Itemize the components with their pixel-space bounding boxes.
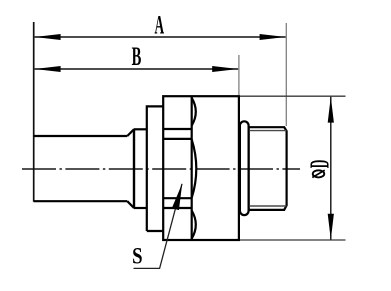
flange (washer) xyxy=(147,106,163,231)
collar bottom edge xyxy=(134,207,147,209)
flare cone bottom xyxy=(127,201,134,208)
tube top edge xyxy=(34,135,128,137)
dimension line A xyxy=(35,36,286,38)
svg-text:B: B xyxy=(132,41,142,71)
hex face line lower 2 xyxy=(163,207,192,209)
svg-text:S: S xyxy=(132,243,142,270)
svg-text:A: A xyxy=(155,9,165,39)
male thread outline xyxy=(249,127,287,210)
leader line S xyxy=(134,184,183,269)
thread minor line bottom xyxy=(249,205,286,207)
label OD (rotated): diameter symbol slash xyxy=(312,170,324,177)
thread runout capsule xyxy=(240,121,249,215)
flare lip vertical xyxy=(133,129,135,209)
extension line left (tube left face + extension up) xyxy=(33,22,35,202)
arrow OD top xyxy=(328,97,334,123)
svg-text:D: D xyxy=(304,160,335,169)
arrow OD bottom xyxy=(328,214,334,240)
leader arrow S xyxy=(172,184,182,211)
tube bottom edge xyxy=(34,200,128,202)
extension line OD top xyxy=(239,95,346,97)
hex chamfer arc bottom xyxy=(192,211,196,239)
hex chamfer arc top xyxy=(192,98,196,126)
collar top edge xyxy=(134,128,147,130)
flare cone top xyxy=(127,129,134,136)
dimension line B xyxy=(35,68,239,70)
hex face line lower 1 xyxy=(163,197,192,199)
hex corner vertical xyxy=(191,96,193,240)
extension line OD bottom xyxy=(239,239,346,241)
thread minor line top xyxy=(249,130,286,132)
centerline (axis) xyxy=(22,168,300,170)
arrow B right xyxy=(212,66,238,72)
arrow A left xyxy=(35,34,61,40)
hex body outline xyxy=(163,96,239,240)
dimension line OD xyxy=(330,97,332,240)
hex face line upper 2 xyxy=(163,138,192,140)
hex chamfer arc middle xyxy=(192,139,197,197)
arrow A right xyxy=(260,34,286,40)
extension line A right xyxy=(285,23,287,126)
hex face line upper 1 xyxy=(163,128,192,130)
arrow B left xyxy=(35,66,61,72)
extension line B right xyxy=(238,55,240,95)
label OD (rotated): diameter symbol circle xyxy=(313,170,325,177)
